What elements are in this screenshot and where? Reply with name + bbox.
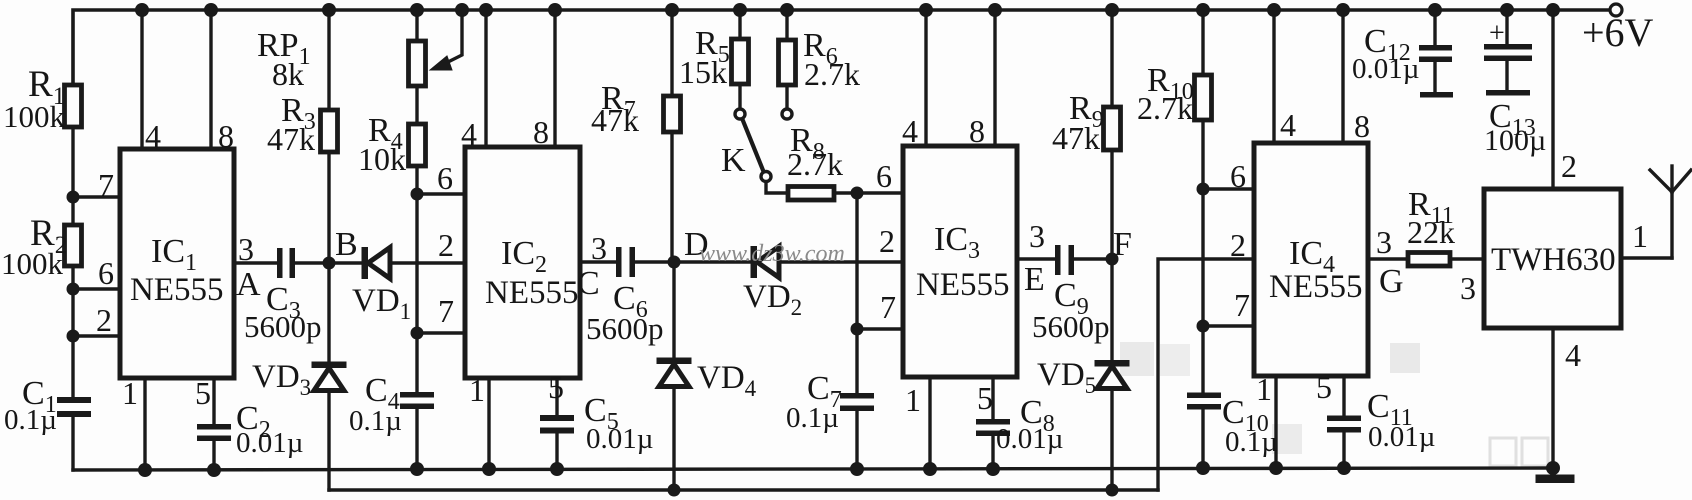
wire R8 to IC3 pin6 bbox=[834, 191, 903, 194]
junction dot TWH630 pin4 ground bbox=[1546, 461, 1560, 475]
wire +6V top supply rail bbox=[73, 10, 1610, 85]
svg-text:4: 4 bbox=[1565, 337, 1581, 373]
wire RP1 to R4 bbox=[415, 86, 418, 124]
svg-text:0.01µ: 0.01µ bbox=[1368, 421, 1435, 453]
wire node B down to VD3 bbox=[327, 263, 330, 362]
svg-text:47k: 47k bbox=[591, 102, 639, 138]
wire IC3 pin4 column bbox=[924, 10, 927, 146]
svg-text:2.7k: 2.7k bbox=[1137, 90, 1193, 126]
wire TWH630 pin1 to antenna bbox=[1621, 256, 1672, 259]
svg-text:4: 4 bbox=[1280, 107, 1296, 143]
wire TWH630 pin2 column bbox=[1551, 10, 1554, 189]
svg-text:5: 5 bbox=[1316, 369, 1332, 405]
ground symbol bbox=[1536, 475, 1574, 483]
wire IC1 pin8 column bbox=[209, 10, 212, 149]
svg-text:NE555: NE555 bbox=[916, 267, 1010, 303]
wire IC1 pin2 bbox=[73, 334, 120, 337]
potentiometer RP1 wiper arrow bbox=[430, 56, 452, 70]
capacitor C9 bbox=[1055, 245, 1074, 275]
svg-text:2: 2 bbox=[96, 302, 112, 338]
op IC4 NE555 box bbox=[1254, 143, 1368, 376]
wire IC3 pin1 to ground bbox=[928, 377, 931, 470]
wire C7 bottom lead to ground rail bbox=[855, 411, 858, 469]
svg-text:0.1µ: 0.1µ bbox=[786, 402, 839, 434]
wire C9 to node F bbox=[1074, 257, 1112, 260]
junction dots left column pins 7 6 2 bbox=[67, 191, 80, 204]
diode VD3 bbox=[312, 362, 346, 391]
wire R9 bottom lead to node F bbox=[1110, 150, 1113, 259]
switch K contact under R6 bbox=[782, 109, 792, 119]
capacitor C8 bbox=[976, 419, 1010, 436]
wire R8 junction column down to IC3 pin7 bbox=[855, 193, 858, 329]
svg-text:NE555: NE555 bbox=[1269, 269, 1363, 305]
wire R6 bottom lead to switch contact bbox=[785, 85, 788, 108]
wire IC4 pin6 bbox=[1203, 187, 1254, 190]
svg-text:5600p: 5600p bbox=[1032, 309, 1110, 344]
svg-text:2: 2 bbox=[438, 227, 454, 263]
antenna right prong bbox=[1672, 170, 1691, 192]
wire IC4 pin8 column bbox=[1341, 10, 1344, 143]
wire C2 to ground bbox=[212, 441, 215, 470]
svg-text:2.7k: 2.7k bbox=[787, 146, 843, 182]
wire C12 bottom stem bbox=[1433, 62, 1436, 92]
decorative faint watermark bbox=[1120, 342, 1548, 466]
svg-text:3: 3 bbox=[1376, 224, 1392, 260]
junction dots on feedback line bbox=[668, 484, 681, 497]
wire VD5 down to feedback line bbox=[1110, 389, 1113, 490]
svg-text:2: 2 bbox=[1561, 148, 1577, 184]
svg-text:0.1µ: 0.1µ bbox=[1225, 426, 1278, 458]
wire C4 bottom lead to ground rail bbox=[415, 409, 418, 469]
svg-text:47k: 47k bbox=[267, 121, 315, 157]
wire ground bottom rail bbox=[73, 468, 1553, 470]
svg-text:0.01µ: 0.01µ bbox=[996, 423, 1063, 455]
node B junction bbox=[323, 257, 336, 270]
wire VD3 down to feedback line bbox=[327, 391, 330, 490]
op IC1 NE555 box bbox=[120, 149, 234, 378]
switch K pole contact bbox=[761, 172, 771, 182]
resistor R1 bbox=[65, 85, 82, 127]
svg-text:E: E bbox=[1024, 261, 1045, 298]
svg-text:22k: 22k bbox=[1407, 214, 1455, 250]
junction dots on ground rail bbox=[138, 463, 152, 477]
wire R6 top lead bbox=[785, 10, 788, 40]
wire C5 to ground bbox=[555, 433, 558, 470]
switch K contact under R5 bbox=[735, 109, 745, 119]
junction IC4 pin6 bbox=[1197, 183, 1210, 196]
svg-text:3: 3 bbox=[238, 231, 254, 267]
wire R10 top lead bbox=[1201, 10, 1204, 75]
wire C13 top lead bbox=[1505, 10, 1508, 44]
op IC2 NE555 box bbox=[465, 147, 580, 378]
svg-text:K: K bbox=[721, 142, 746, 179]
diode VD2 bbox=[751, 247, 779, 278]
wire pin7 junction down to C10 bbox=[1201, 326, 1204, 392]
transmitter module TWH630 box bbox=[1484, 189, 1621, 328]
svg-text:7: 7 bbox=[438, 293, 454, 329]
junction R8 IC3 pin6 bbox=[851, 187, 864, 200]
svg-text:6: 6 bbox=[437, 160, 453, 196]
svg-text:6: 6 bbox=[98, 255, 114, 291]
resistor R5 bbox=[732, 39, 749, 84]
wire IC3 pin8 column bbox=[993, 10, 996, 146]
svg-text:15k: 15k bbox=[679, 54, 727, 90]
svg-text:0.01µ: 0.01µ bbox=[586, 423, 653, 455]
capacitor C6 bbox=[616, 247, 635, 277]
svg-text:7: 7 bbox=[98, 167, 114, 203]
wire R5 top lead bbox=[738, 10, 741, 39]
svg-text:NE555: NE555 bbox=[485, 275, 579, 311]
svg-text:TWH630: TWH630 bbox=[1491, 242, 1616, 278]
wire node D down to VD4 bbox=[672, 262, 675, 358]
svg-text:0.1µ: 0.1µ bbox=[4, 404, 57, 436]
wire IC4 pin1 to ground bbox=[1274, 376, 1277, 468]
svg-text:0.1µ: 0.1µ bbox=[349, 405, 402, 437]
wire IC2 pin4 column bbox=[484, 10, 487, 147]
wire IC4 pin3 to R11 bbox=[1368, 257, 1408, 260]
wire IC3 pin5 to C8 bbox=[991, 377, 994, 419]
resistor R9 bbox=[1104, 107, 1121, 150]
antenna left prong bbox=[1650, 170, 1672, 192]
junction IC3 pin7 bbox=[851, 323, 864, 336]
wire R4 bottom to IC2 pin6 junction bbox=[415, 166, 418, 194]
capacitor C12 bbox=[1419, 45, 1453, 98]
antenna mast bbox=[1670, 192, 1673, 258]
potentiometer RP1 bbox=[409, 41, 426, 86]
svg-text:8: 8 bbox=[533, 114, 549, 150]
wire IC2 pin6 bbox=[417, 192, 465, 195]
svg-text:4: 4 bbox=[461, 116, 477, 152]
svg-text:G: G bbox=[1379, 263, 1404, 300]
wire IC1 pin4 column bbox=[140, 10, 143, 149]
svg-text:7: 7 bbox=[1234, 287, 1250, 323]
wire R9 top lead bbox=[1110, 10, 1113, 107]
wire junction column pin6 to pin7 of IC2 bbox=[415, 194, 418, 333]
junction IC2 pin6 bbox=[411, 188, 424, 201]
capacitor C7 bbox=[840, 393, 874, 411]
svg-text:8: 8 bbox=[969, 113, 985, 149]
svg-text:NE555: NE555 bbox=[130, 272, 224, 308]
node D junction bbox=[668, 256, 681, 269]
wire IC2 pin1 to ground bbox=[487, 378, 490, 470]
diode VD4 bbox=[657, 358, 691, 387]
wire IC1 pin3 to C3 bbox=[234, 261, 277, 264]
svg-text:2: 2 bbox=[879, 223, 895, 259]
svg-text:47k: 47k bbox=[1052, 120, 1100, 156]
resistor R7 bbox=[664, 96, 681, 132]
wire node F down to VD5 bbox=[1110, 259, 1113, 360]
svg-text:1: 1 bbox=[122, 375, 138, 411]
wire VD2 to IC3 pin2 bbox=[779, 260, 903, 263]
op IC3 NE555 box bbox=[903, 146, 1017, 377]
svg-text:5: 5 bbox=[195, 375, 211, 411]
svg-text:10k: 10k bbox=[358, 141, 406, 177]
svg-text:1: 1 bbox=[905, 382, 921, 418]
wire R7 top lead bbox=[670, 10, 673, 96]
wire C13 bottom stem bbox=[1505, 61, 1508, 90]
svg-text:2: 2 bbox=[1230, 227, 1246, 263]
svg-text:+: + bbox=[1489, 18, 1505, 49]
+6V supply terminal circle bbox=[1610, 4, 1622, 16]
wire pin7 junction down to C4 bbox=[415, 333, 418, 392]
wire IC3 pin7 bbox=[857, 327, 903, 330]
svg-text:8: 8 bbox=[218, 118, 234, 154]
svg-text:www.dz3w.com: www.dz3w.com bbox=[699, 241, 845, 267]
wire C10 bottom lead to ground rail bbox=[1201, 409, 1204, 468]
capacitor C3 bbox=[277, 248, 295, 278]
wire pin7 junction down to C7 bbox=[855, 329, 858, 393]
svg-text:100µ: 100µ bbox=[1484, 124, 1546, 157]
wire IC2 pin7 bbox=[417, 331, 465, 334]
wire IC2 pin5 to C5 bbox=[555, 378, 558, 415]
resistor R6 bbox=[779, 40, 796, 85]
svg-text:4: 4 bbox=[902, 113, 918, 149]
svg-text:C: C bbox=[577, 265, 600, 302]
wire junction column pin6 to pin7 of IC4 bbox=[1201, 189, 1204, 326]
wire IC1 pin1 to ground bbox=[143, 378, 146, 470]
wire node D to VD2 bbox=[674, 260, 751, 263]
wire IC1 pin7 bbox=[73, 195, 120, 198]
svg-text:5: 5 bbox=[548, 369, 564, 405]
wire IC3 pin3 to C9 bbox=[1017, 257, 1055, 260]
svg-text:1: 1 bbox=[1632, 218, 1648, 254]
svg-text:5600p: 5600p bbox=[586, 311, 664, 346]
resistor R8 bbox=[788, 187, 834, 201]
svg-text:F: F bbox=[1113, 226, 1132, 263]
junction IC4 pin7 bbox=[1197, 320, 1210, 333]
svg-text:8: 8 bbox=[1354, 108, 1370, 144]
svg-text:3: 3 bbox=[1460, 270, 1476, 306]
svg-text:3: 3 bbox=[1029, 218, 1045, 254]
svg-text:A: A bbox=[236, 266, 261, 303]
wire RP1 wiper arm from supply rail bbox=[446, 10, 462, 63]
svg-text:7: 7 bbox=[880, 289, 896, 325]
diode VD1 bbox=[362, 248, 390, 279]
wire switch pole to R8 bbox=[766, 182, 788, 193]
wire diode common feedback line bbox=[329, 488, 1158, 491]
capacitor C2 bbox=[197, 424, 231, 441]
wire IC1 pin5 to C2 bbox=[212, 378, 215, 424]
wire IC4 pin7 bbox=[1203, 324, 1254, 327]
wire R3 bottom lead to node B bbox=[327, 152, 330, 263]
resistor R3 bbox=[321, 110, 338, 152]
wire feedback line up to IC4 pin2 bbox=[1158, 259, 1254, 490]
junction IC2 pin7 bbox=[411, 327, 424, 340]
svg-text:100k: 100k bbox=[1, 246, 64, 281]
switch K blade bbox=[743, 120, 764, 172]
capacitor C11 bbox=[1327, 416, 1361, 433]
wire C6 to node D bbox=[635, 260, 674, 263]
junction dots on supply rail bbox=[135, 3, 149, 17]
svg-text:100k: 100k bbox=[3, 99, 66, 134]
svg-text:0.01µ: 0.01µ bbox=[1352, 53, 1419, 85]
wire R5 bottom lead to switch contact bbox=[738, 84, 741, 108]
resistor R4 bbox=[409, 124, 426, 166]
svg-text:8k: 8k bbox=[272, 56, 304, 92]
wire R7 bottom lead to node D bbox=[670, 132, 673, 262]
svg-text:4: 4 bbox=[145, 118, 161, 154]
wire C11 to ground bbox=[1342, 433, 1345, 468]
antenna center prong bbox=[1670, 166, 1673, 192]
wire R11 to TWH630 pin3 bbox=[1450, 257, 1484, 260]
svg-text:5: 5 bbox=[977, 380, 993, 416]
capacitor C4 bbox=[400, 392, 434, 409]
svg-text:3: 3 bbox=[591, 230, 607, 266]
wire VD4 down to feedback line bbox=[672, 387, 675, 490]
wire IC2 pin8 column bbox=[553, 10, 556, 147]
wire C8 to ground bbox=[991, 436, 994, 470]
wire R2 bottom segment bbox=[71, 266, 74, 397]
wire R10 bottom lead to IC4 pin6 junction bbox=[1201, 120, 1204, 189]
wire C12 top lead bbox=[1433, 10, 1436, 45]
svg-text:1: 1 bbox=[469, 372, 485, 408]
wire IC4 pin5 to C11 bbox=[1342, 376, 1345, 415]
wire IC1 pin6 bbox=[73, 287, 120, 290]
wire C3 to node B bbox=[295, 261, 362, 264]
wire RP1 top lead bbox=[415, 10, 418, 41]
svg-text:6: 6 bbox=[876, 158, 892, 194]
wire C1 bottom lead to ground rail bbox=[71, 417, 74, 470]
capacitor C13 electrolytic bbox=[1484, 44, 1532, 96]
svg-text:6: 6 bbox=[1230, 158, 1246, 194]
resistor R11 bbox=[1408, 253, 1450, 267]
svg-text:+6V: +6V bbox=[1582, 10, 1654, 55]
svg-text:B: B bbox=[335, 226, 358, 263]
node F junction bbox=[1106, 253, 1119, 266]
svg-text:5600p: 5600p bbox=[244, 309, 322, 344]
svg-text:1: 1 bbox=[1256, 371, 1272, 407]
svg-text:0.01µ: 0.01µ bbox=[236, 427, 303, 459]
wire IC4 pin4 column bbox=[1272, 10, 1275, 143]
wire R1 column pin7 pin6 pin2 of IC1 bbox=[71, 127, 74, 225]
capacitor C1 bbox=[57, 397, 91, 417]
wire R3 top lead bbox=[327, 10, 330, 110]
svg-text:2.7k: 2.7k bbox=[804, 56, 860, 92]
wire TWH630 pin4 down to ground bbox=[1551, 328, 1554, 468]
capacitor C5 bbox=[540, 415, 574, 434]
resistor R2 bbox=[65, 225, 82, 266]
resistor R10 bbox=[1195, 75, 1212, 120]
capacitor C10 bbox=[1187, 393, 1221, 410]
wire IC2 pin3 to C6 bbox=[580, 260, 616, 263]
diode VD5 bbox=[1095, 361, 1129, 389]
wire VD1 to IC2 pin2 bbox=[390, 261, 465, 264]
